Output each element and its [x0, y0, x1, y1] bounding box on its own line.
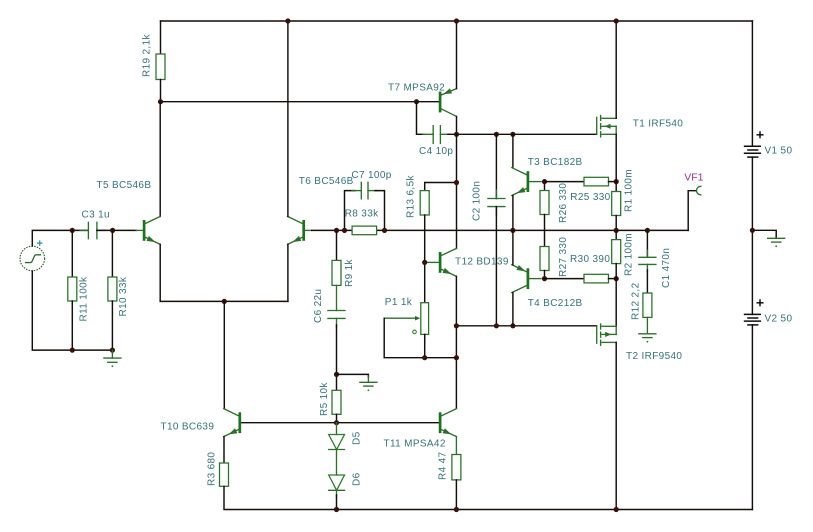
wire: source top lead to input node [32, 230, 88, 246]
node: T4 collector at T2 gate rail [510, 323, 515, 328]
node: T7 base / C4 tap [414, 99, 419, 104]
capacitor C1 [639, 230, 656, 272]
resistor R27 [540, 247, 549, 279]
wire: T4 collector down to T2 gate rail [512, 293, 514, 326]
node: T2 drain at bottom rail [614, 507, 619, 512]
wire: T5 emitter down [159, 244, 161, 301]
svg-text:R27 330: R27 330 [558, 237, 569, 277]
resistor R9 [332, 230, 341, 310]
svg-text:D5: D5 [351, 431, 362, 445]
wire: right rail upper segment (V+ to V1) [751, 21, 753, 146]
node: T12 base junction [422, 260, 427, 265]
node: T1 drain at top rail [614, 18, 619, 23]
svg-text:R30 390: R30 390 [570, 254, 610, 265]
svg-text:VF1: VF1 [684, 171, 703, 183]
wire: T12 collector line down from C4 node [456, 134, 458, 248]
wire: top positive supply rail [161, 20, 753, 22]
label R4 [438, 451, 449, 480]
label T7 [388, 82, 445, 93]
node: R4 bottom at negative rail [454, 507, 459, 512]
svg-text:T1 IRF540: T1 IRF540 [633, 119, 683, 130]
wire: T3 emitter down to output rail [512, 196, 514, 231]
svg-text:R8 33k: R8 33k [345, 209, 379, 220]
resistor R2 [612, 230, 621, 326]
svg-text:T6 BC546B: T6 BC546B [299, 176, 354, 187]
node: D5 top / R5 bottom junction [334, 420, 339, 425]
resistor R4 [452, 437, 461, 510]
svg-text:C4 10p: C4 10p [419, 146, 453, 157]
svg-text:C3 1u: C3 1u [82, 210, 110, 221]
svg-text:R4 47: R4 47 [438, 451, 449, 480]
label C2 [472, 181, 483, 221]
svg-text:R12 2,2: R12 2,2 [631, 282, 642, 320]
node: R9 top at rail [334, 228, 339, 233]
resistor R8 [352, 226, 377, 235]
wire: source bottom lead to ground line [32, 271, 112, 350]
svg-text:R1 100m: R1 100m [624, 169, 635, 212]
label T4 [528, 298, 583, 309]
svg-text:C7 100p: C7 100p [351, 170, 391, 181]
svg-text:V1 50: V1 50 [765, 146, 793, 157]
label V2 [765, 314, 793, 325]
battery V1 [744, 131, 764, 157]
transistor T6 [288, 216, 312, 244]
resistor R25 [545, 177, 617, 186]
svg-text:T4 BC212B: T4 BC212B [528, 298, 583, 309]
label T3 [528, 157, 583, 168]
node: T12 emitter at T2 gate rail [454, 323, 459, 328]
wire: T5 collector up [159, 102, 161, 217]
label R12 [631, 282, 642, 320]
label R11 [78, 276, 89, 322]
label P1 [385, 297, 413, 308]
svg-text:T12 BD139: T12 BD139 [455, 257, 509, 268]
wire: T10 base to T11 base rail [240, 422, 440, 424]
wire: T10 emitter down to R3 [223, 437, 225, 463]
terminal VF1 [688, 186, 701, 230]
label D6 [351, 472, 362, 486]
node: T6 collector at top rail [285, 18, 290, 23]
label T6 [299, 176, 354, 187]
label C3 [82, 210, 110, 221]
node: T3 collector at gate rail [510, 132, 515, 137]
wire: gate rail of T2 [456, 325, 596, 327]
svg-text:T7 MPSA92: T7 MPSA92 [388, 82, 445, 93]
wire: T7 emitter up to supply rail [456, 21, 458, 89]
transistor T12 [426, 248, 456, 276]
label R10 [118, 276, 129, 316]
potentiometer P1 [384, 303, 428, 342]
wire: C6 bottom to R5 [336, 325, 338, 390]
wire: T2 drain to bottom rail [615, 342, 617, 509]
node: supply midpoint junction [750, 228, 755, 233]
node: R19 bottom / T5 collector [158, 99, 163, 104]
label R8 [345, 209, 379, 220]
label C7 [351, 170, 391, 181]
transistor T4 [512, 265, 541, 293]
wire: T12 emitter line down to T11 collector [455, 276, 457, 408]
svg-text:C6 22u: C6 22u [313, 289, 324, 323]
wire: T7 collector down to C4 node [456, 116, 458, 134]
label R1 [624, 169, 635, 212]
svg-text:R10 33k: R10 33k [118, 276, 129, 316]
label T1 [633, 119, 683, 130]
wire: right rail middle segment (V1 to V2) [751, 157, 753, 314]
wire: P1 wiper loop to bottom [384, 318, 456, 358]
MOSFET T2 [597, 324, 617, 345]
capacitor C3 [80, 222, 105, 238]
svg-text:D6: D6 [351, 472, 362, 486]
svg-text:R9 1k: R9 1k [344, 258, 355, 287]
wire: C3 to T5 base [97, 229, 136, 231]
node: C2 bottom at T2 gate rail [494, 323, 499, 328]
svg-text:R11 100k: R11 100k [78, 276, 89, 322]
label R9 [344, 258, 355, 287]
resistor R11 [68, 230, 77, 350]
svg-text:P1 1k: P1 1k [385, 297, 413, 308]
ground (supply midpoint) [752, 230, 784, 247]
wire: right rail lower segment (V2 to bottom rail) [751, 325, 753, 510]
capacitor C7 [345, 182, 385, 230]
label T5 [97, 180, 152, 191]
node: R5 top / ground tap [334, 372, 339, 377]
voltage source V3 (signal generator) [20, 240, 45, 270]
label C4 [419, 146, 453, 157]
label T10 [161, 422, 215, 433]
node: P1 bottom junction [422, 355, 427, 360]
battery V2 [744, 299, 764, 325]
node: T4 base junction [542, 276, 547, 281]
node: input after C3 [110, 228, 115, 233]
ground (input network) [104, 350, 121, 367]
node: R11 bottom junction [70, 348, 75, 353]
resistor R12 [643, 270, 652, 317]
resistor R13 [420, 183, 456, 303]
node: D6 bottom at negative rail [334, 507, 339, 512]
label VF1 [684, 171, 703, 183]
svg-text:C2 100n: C2 100n [472, 181, 483, 221]
svg-text:T11 MPSA42: T11 MPSA42 [384, 439, 446, 450]
wire: T3 collector up to T1 gate rail [512, 134, 514, 167]
label C1 [661, 248, 672, 288]
resistor R30 [545, 274, 617, 283]
svg-text:R3 680: R3 680 [206, 452, 217, 486]
wire: P1 bottom lead [424, 334, 426, 357]
node: R8/C7 left at rail [342, 228, 347, 233]
wire: T6 collector up to supply rail [287, 21, 289, 216]
svg-text:R19 2,1k: R19 2,1k [142, 34, 153, 77]
svg-text:R2 100m: R2 100m [624, 233, 635, 276]
ground (Zobel network) [639, 317, 656, 342]
svg-text:T2 IRF9540: T2 IRF9540 [626, 351, 682, 362]
node: wiper wire at T12 emitter line [454, 355, 459, 360]
node: R30 right at T2 source line [614, 276, 619, 281]
wire: T4 emitter up to output rail [512, 230, 514, 264]
svg-text:R13 6,5k: R13 6,5k [405, 175, 416, 218]
node: T7 emitter at top rail [454, 18, 459, 23]
label R26 [558, 183, 569, 223]
svg-text:R5 10k: R5 10k [319, 382, 330, 416]
label T2 [626, 351, 682, 362]
node: T3 base junction [542, 179, 547, 184]
transistor T5 [136, 216, 160, 244]
transistor T7 [440, 88, 456, 116]
node: R8/C7 right at rail [382, 228, 387, 233]
label R27 [558, 237, 569, 277]
node: C2 top at gate rail [494, 132, 499, 137]
capacitor C2 [488, 134, 505, 325]
label R13 [405, 175, 416, 218]
label C6 [313, 289, 324, 323]
svg-text:T5 BC546B: T5 BC546B [97, 180, 152, 191]
label R19 [142, 34, 153, 77]
label R3 [206, 452, 217, 486]
label R5 [319, 382, 330, 416]
svg-text:T10 BC639: T10 BC639 [161, 422, 215, 433]
wire: R19 bottom to T7 base [161, 101, 441, 103]
node: input before C3 [70, 228, 75, 233]
MOSFET T1 [597, 116, 617, 137]
label R2 [624, 233, 635, 276]
wire: C4 to T1 gate rail [448, 133, 597, 135]
label T12 [455, 257, 509, 268]
wire: T6 emitter down [287, 244, 289, 301]
svg-text:C1 470n: C1 470n [661, 248, 672, 288]
svg-text:V2 50: V2 50 [765, 314, 793, 325]
transistor T10 [224, 409, 240, 437]
node: emitter tail junction [222, 299, 227, 304]
node: R10 bottom junction [110, 348, 115, 353]
wire: T1 drain to top rail [615, 21, 617, 118]
label T11 [384, 439, 446, 450]
node: output node [614, 228, 619, 233]
wire: tail current line down to T10 collector [223, 301, 225, 408]
resistor R3 [220, 463, 229, 510]
diode D5 [329, 423, 345, 475]
diode D6 [329, 475, 345, 510]
node: T3/T4 emitters at output rail [510, 228, 515, 233]
resistor R5 [332, 390, 341, 422]
label R30 [570, 254, 610, 265]
wire: differential pair emitter rail [160, 300, 288, 302]
wire: T6 base feedback rail to output [312, 229, 689, 231]
capacitor C4 [417, 102, 450, 144]
node: C4 / T7 collector junction [454, 132, 459, 137]
node: R13 top on collector line [454, 180, 459, 185]
node: R25 right at T1 source line [614, 179, 619, 184]
svg-text:R26 330: R26 330 [558, 183, 569, 223]
resistor R1 [612, 134, 621, 230]
capacitor C6 [328, 311, 345, 328]
node: C1 top at output rail [645, 228, 650, 233]
label V1 [765, 146, 793, 157]
wire: bottom negative supply rail [225, 509, 753, 511]
svg-text:R25 330: R25 330 [570, 192, 610, 203]
ground (bias divider) [337, 374, 377, 391]
svg-text:T3 BC182B: T3 BC182B [528, 157, 583, 168]
label D5 [351, 431, 362, 445]
resistor R10 [108, 230, 117, 350]
resistor R19 [156, 21, 165, 102]
transistor T11 [440, 409, 456, 437]
resistor R26 [540, 182, 549, 247]
label R25 [570, 192, 610, 203]
transistor T3 [512, 168, 541, 196]
